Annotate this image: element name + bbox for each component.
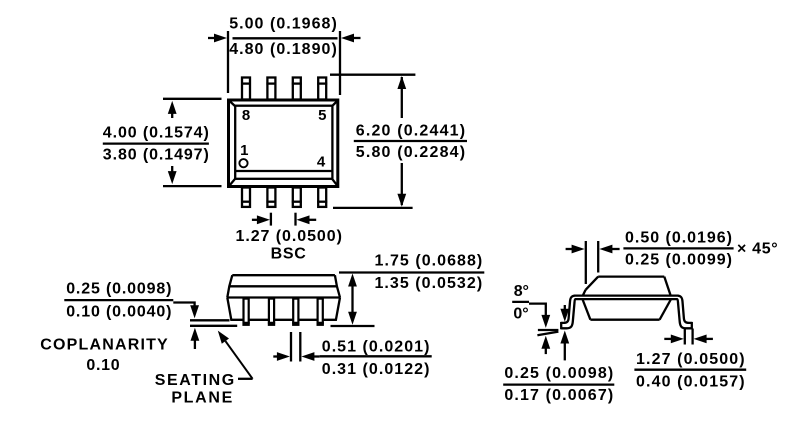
bottom row pin 2 <box>266 188 276 207</box>
svg-text:PLANE: PLANE <box>171 390 232 407</box>
svg-text:1.27 (0.0500): 1.27 (0.0500) <box>636 351 745 368</box>
svg-text:SEATING: SEATING <box>155 372 234 389</box>
svg-text:0.51 (0.0201): 0.51 (0.0201) <box>322 338 430 355</box>
dimension 0.25/0.17 lead thickness <box>503 305 614 404</box>
dimension 8/0 degrees lead angle <box>512 283 558 354</box>
dimension 0.50/0.25 x45 chamfer <box>566 230 778 285</box>
bottom row pin 1 <box>241 188 251 207</box>
SEATING PLANE label with leader arrow <box>155 331 253 407</box>
svg-text:COPLANARITY: COPLANARITY <box>40 336 168 353</box>
dimension 1.75/1.35 package height <box>331 252 485 326</box>
end view body <box>574 277 679 320</box>
svg-text:1.75 (0.0688): 1.75 (0.0688) <box>375 252 483 269</box>
svg-text:4.80 (0.1890): 4.80 (0.1890) <box>229 41 337 58</box>
svg-text:5: 5 <box>318 107 326 124</box>
svg-text:8: 8 <box>242 107 250 124</box>
top row pin 8 <box>241 78 251 100</box>
dimension 5.00/4.80 body width <box>208 16 361 95</box>
side view lead 1 <box>243 299 250 325</box>
dimension 1.27 BSC lead pitch <box>236 213 342 263</box>
coplanarity dimension 0.25/0.10 <box>64 280 199 349</box>
dimension 0.51/0.31 lead width <box>273 332 431 378</box>
dimension 4.00/3.80 body height <box>103 99 222 186</box>
svg-text:1.27 (0.0500): 1.27 (0.0500) <box>236 228 342 245</box>
side view lead 4 <box>317 299 324 325</box>
svg-text:4.00 (0.1574): 4.00 (0.1574) <box>103 125 209 142</box>
svg-text:0.25 (0.0098): 0.25 (0.0098) <box>66 280 171 297</box>
svg-text:0.25 (0.0098): 0.25 (0.0098) <box>504 365 613 382</box>
dimension 6.20/5.80 span across leads <box>330 75 467 208</box>
svg-text:0.50 (0.0196): 0.50 (0.0196) <box>625 230 732 247</box>
dimension 1.27/0.40 foot length <box>634 329 746 391</box>
side view lead 2 <box>268 299 275 325</box>
svg-text:8°: 8° <box>514 283 529 300</box>
svg-text:× 45°: × 45° <box>737 241 778 258</box>
svg-text:1: 1 <box>240 142 248 159</box>
svg-text:3.80 (0.1497): 3.80 (0.1497) <box>103 146 209 163</box>
end view left gull-wing lead <box>561 296 575 330</box>
side view lead 3 <box>292 299 299 325</box>
top row pin 7 <box>266 78 276 100</box>
svg-text:0.25 (0.0099): 0.25 (0.0099) <box>625 251 732 268</box>
COPLANARITY label <box>40 336 168 374</box>
svg-text:0.31 (0.0122): 0.31 (0.0122) <box>322 361 430 378</box>
svg-text:5.00 (0.1968): 5.00 (0.1968) <box>229 16 337 33</box>
svg-text:0.10 (0.0040): 0.10 (0.0040) <box>66 303 171 320</box>
bottom row pin 3 <box>292 188 302 207</box>
top row pin 6 <box>292 78 302 100</box>
svg-text:0°: 0° <box>513 305 528 322</box>
svg-text:1.35 (0.0532): 1.35 (0.0532) <box>374 275 482 292</box>
side view body <box>227 275 340 320</box>
end view right gull-wing lead <box>677 296 692 330</box>
svg-text:0.10: 0.10 <box>86 357 119 374</box>
top view package body outline <box>229 100 338 187</box>
bottom row pin 4 <box>317 188 327 207</box>
svg-text:BSC: BSC <box>271 245 307 262</box>
svg-text:0.17 (0.0067): 0.17 (0.0067) <box>504 387 613 404</box>
seating plane lines <box>190 320 237 326</box>
svg-text:4: 4 <box>317 154 326 171</box>
top row pin 5 <box>317 78 327 100</box>
svg-text:0.40 (0.0157): 0.40 (0.0157) <box>636 373 745 390</box>
pin 1 index circle <box>239 159 247 167</box>
